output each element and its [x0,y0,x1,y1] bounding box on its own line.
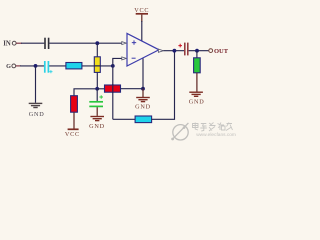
ground (C3) [89,117,105,131]
svg-text:G: G [6,63,11,70]
capacitor C1 [45,38,49,49]
wire bias node to R red horizontal [97,88,105,90]
resistor R red (vertical, to VCC) [71,96,78,113]
wire R green to ground [196,73,198,92]
resistor R red (horizontal) [105,85,121,92]
svg-text:www.elecfans.com: www.elecfans.com [196,132,236,138]
wire R red to op-amp ground node [121,88,144,90]
node B junction (inverting) [111,64,115,68]
op-amp ground node junction [141,87,145,91]
pin marker output [158,49,163,52]
wire over yellow resistor body redrawn [94,65,101,67]
ground (R green) [189,92,205,105]
svg-text:GND: GND [135,104,151,111]
svg-text:GND: GND [189,98,205,105]
wire node G down to ground [35,66,37,103]
resistor R feedback (cyan, horizontal) [135,116,152,123]
VCC symbol (top) [134,7,149,22]
port G [6,63,21,70]
port OUT [209,48,229,55]
svg-text:GND: GND [29,111,45,118]
wire node B down to feedback bottom [112,66,114,119]
pin marker - input [122,57,127,60]
watermark chinese text blobs [193,123,233,132]
pin marker + input [122,42,127,45]
ground (G input) [29,103,45,118]
port IN [3,41,22,48]
svg-text:GND: GND [89,123,105,130]
op-amp U1 [127,33,159,66]
wire over red resistor (crossing vertical) [112,84,114,93]
VCC rail (bottom symbol) [65,112,80,138]
wire IN to C1 [21,42,44,44]
wire bias node down to C3 [96,89,98,101]
svg-text:OUT: OUT [214,48,229,55]
wire VCC to op-amp V+ pin [141,21,143,41]
wire bottom left segment [113,118,136,120]
wire node B up to - input [113,58,122,66]
wire C4 to OUT [189,50,209,52]
ground (op-amp) [135,98,151,111]
out junction [195,49,199,53]
capacitor C2 (electrolytic, cyan) [45,61,53,73]
svg-text:IN: IN [3,41,11,48]
output junction [173,49,177,53]
node G junction [34,64,38,68]
node A junction [95,41,99,45]
capacitor C4 (electrolytic, output) [178,43,187,56]
capacitor C3 (green, bypass) [89,95,103,106]
wire G to C2 [20,65,44,67]
resistor R cyan (series, horizontal) [66,63,82,69]
wire R yellow to bias node [96,72,98,88]
bias node junction [95,87,99,91]
watermark logo [171,123,188,141]
bias chain: wire corner to R red vertical [74,89,97,96]
wire C2 to inverting node [49,65,113,67]
wire C1 to op-amp + input [49,42,121,44]
wire out junction down to R green [196,51,198,58]
wire output to C4 [163,50,184,52]
wire C3 to ground [96,107,98,116]
wire ground node down to ground [142,89,144,97]
wire ground node up to op-amp V- pin [142,58,144,88]
resistor R yellow (vertical) [94,57,100,73]
wire bottom right segment up to output [152,51,175,120]
wire node A down to R yellow [96,43,98,57]
svg-text:VCC: VCC [65,131,80,138]
resistor R green (load, vertical) [194,58,201,73]
